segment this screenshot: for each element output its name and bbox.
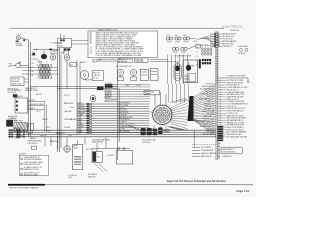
svg-text:STOP HORN: STOP HORN bbox=[77, 110, 86, 112]
svg-text:FROM STOP: FROM STOP bbox=[142, 142, 150, 144]
svg-text:LH 16: LH 16 bbox=[70, 107, 74, 109]
svg-text:FUSE 20: FUSE 20 bbox=[29, 100, 35, 102]
svg-text:BRKR TO: BRKR TO bbox=[80, 62, 87, 64]
svg-text:B-14: B-14 bbox=[175, 35, 178, 37]
svg-text:ORN BLK GRD: ORN BLK GRD bbox=[119, 124, 128, 126]
svg-text:STOP FROM IGN: STOP FROM IGN bbox=[119, 119, 130, 121]
svg-text:BLK: BLK bbox=[194, 41, 197, 43]
svg-text:FEED: FEED bbox=[191, 66, 195, 68]
svg-text:PPL 20: PPL 20 bbox=[46, 127, 51, 129]
svg-text:ELECTRICAL: ELECTRICAL bbox=[222, 25, 243, 29]
svg-text:LH PNL: LH PNL bbox=[15, 138, 20, 140]
svg-text:WIRE HORN: WIRE HORN bbox=[8, 120, 17, 122]
svg-text:LH: LH bbox=[32, 67, 34, 69]
svg-text:JUNCTION BLOCK: JUNCTION BLOCK bbox=[222, 151, 235, 153]
svg-text:PPL 16 FROM: PPL 16 FROM bbox=[222, 39, 233, 41]
svg-text:RED SW: RED SW bbox=[36, 94, 42, 96]
svg-text:WIRE DOME RED: WIRE DOME RED bbox=[119, 131, 130, 133]
svg-text:V: V bbox=[97, 154, 98, 156]
svg-text:STOP LT: STOP LT bbox=[64, 95, 70, 97]
svg-text:GRD FUSE: GRD FUSE bbox=[77, 107, 84, 109]
svg-text:CKT LT: CKT LT bbox=[36, 111, 41, 113]
svg-text:PPL: PPL bbox=[32, 63, 35, 65]
svg-text:RH 18: RH 18 bbox=[77, 129, 81, 131]
svg-text:SIG FROM: SIG FROM bbox=[128, 124, 136, 126]
svg-text:TO GRD: TO GRD bbox=[135, 85, 141, 87]
svg-text:L.H. DIR SIG: L.H. DIR SIG bbox=[68, 175, 78, 177]
svg-text:IGN SW: IGN SW bbox=[17, 96, 23, 98]
svg-text:RH: RH bbox=[32, 71, 34, 73]
svg-text:FUSE LT: FUSE LT bbox=[29, 108, 35, 110]
svg-text:DIST: DIST bbox=[39, 62, 43, 64]
svg-text:RED ORN: RED ORN bbox=[50, 53, 57, 55]
svg-text:IGN 12: IGN 12 bbox=[68, 177, 73, 179]
svg-text:REF MOTOR HOME CHASSIS: REF MOTOR HOME CHASSIS bbox=[10, 186, 40, 189]
svg-text:RR: RR bbox=[32, 75, 34, 77]
svg-text:Figure 6A-107 Chassis Schemati: Figure 6A-107 Chassis Schematic and Aft … bbox=[167, 180, 226, 183]
svg-text:PNL GRD: PNL GRD bbox=[105, 90, 111, 92]
svg-text:18 PNL WIRE GRD LH: 18 PNL WIRE GRD LH bbox=[24, 172, 40, 174]
svg-text:SIG CABLE BAT ORN RED: SIG CABLE BAT ORN RED bbox=[227, 135, 249, 138]
svg-text:FRT DOME LH: FRT DOME LH bbox=[201, 147, 211, 149]
svg-text:LH: LH bbox=[32, 59, 34, 61]
svg-text:TO HORN: TO HORN bbox=[107, 155, 114, 157]
svg-text:REG: REG bbox=[97, 156, 100, 158]
svg-text:Page 1-16: Page 1-16 bbox=[236, 189, 249, 193]
svg-text:VOLT REG: VOLT REG bbox=[86, 149, 94, 151]
svg-text:CONN: CONN bbox=[167, 42, 171, 44]
svg-text:CKT FROM: CKT FROM bbox=[16, 135, 24, 137]
svg-text:DOME BLK 12: DOME BLK 12 bbox=[222, 46, 233, 48]
svg-text:GRN FROM BRKR: GRN FROM BRKR bbox=[119, 103, 130, 105]
svg-text:GRN TO FROM: GRN TO FROM bbox=[119, 105, 129, 107]
svg-text:PPL GRN: PPL GRN bbox=[70, 119, 76, 121]
svg-text:FROM GRD: FROM GRD bbox=[88, 176, 96, 178]
svg-text:B-14: B-14 bbox=[167, 35, 170, 37]
svg-text:GEN: GEN bbox=[61, 53, 64, 55]
svg-text:HORN BRKR SW STOP: HORN BRKR SW STOP bbox=[24, 164, 41, 166]
svg-text:CONN: CONN bbox=[173, 52, 177, 54]
svg-text:FUSE HORN 12: FUSE HORN 12 bbox=[28, 143, 38, 145]
svg-text:TO LT: TO LT bbox=[77, 117, 81, 119]
svg-text:FEED PNL RR TO: FEED PNL RR TO bbox=[25, 88, 38, 90]
svg-text:C-4: C-4 bbox=[90, 53, 93, 55]
svg-text:RED RR GRN: RED RR GRN bbox=[119, 110, 128, 112]
svg-text:LT IGN 20: LT IGN 20 bbox=[119, 107, 125, 109]
svg-text:FRT IGN LH: FRT IGN LH bbox=[8, 92, 16, 94]
svg-text:CIRCUITS SEE SECTION 6A OF THI: CIRCUITS SEE SECTION 6A OF THIS MANUAL F… bbox=[96, 54, 142, 57]
svg-text:TPS: TPS bbox=[9, 64, 12, 66]
svg-text:TO 18: TO 18 bbox=[77, 122, 81, 124]
svg-text:18 DIR: 18 DIR bbox=[77, 103, 81, 105]
svg-text:16 LH: 16 LH bbox=[68, 135, 72, 137]
svg-text:SW CKT: SW CKT bbox=[105, 98, 111, 100]
svg-text:BLK BRKR FUSE: BLK BRKR FUSE bbox=[119, 59, 131, 61]
svg-text:CONN: CONN bbox=[181, 52, 185, 54]
svg-text:B-2: B-2 bbox=[90, 43, 93, 45]
svg-text:R.H. DIR SIG: R.H. DIR SIG bbox=[88, 174, 98, 176]
svg-text:14 HORN: 14 HORN bbox=[77, 126, 83, 128]
svg-text:FUEL TK: FUEL TK bbox=[173, 62, 179, 64]
svg-text:FUSE FUSE: FUSE FUSE bbox=[136, 61, 144, 63]
svg-text:B-14: B-14 bbox=[184, 35, 187, 37]
svg-text:RR PPL: RR PPL bbox=[105, 100, 110, 102]
svg-text:FUSE GRN: FUSE GRN bbox=[136, 59, 144, 61]
svg-text:18 FROM: 18 FROM bbox=[64, 127, 71, 129]
svg-text:CONN: CONN bbox=[175, 42, 179, 44]
svg-text:CONN: CONN bbox=[184, 42, 188, 44]
svg-text:16 BRKR: 16 BRKR bbox=[145, 93, 151, 95]
